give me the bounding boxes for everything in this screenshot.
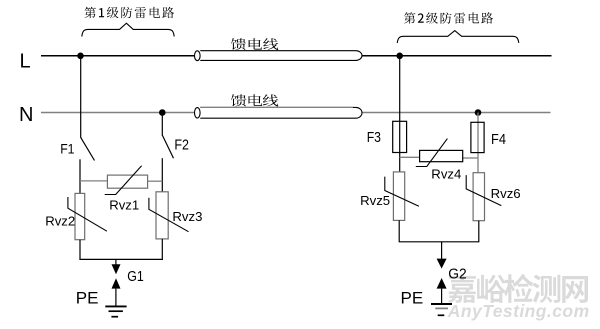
svg-text:L: L — [20, 50, 31, 72]
label 第1级防雷电路 — [85, 7, 175, 18]
gas discharge tube G1 — [112, 259, 121, 306]
label 馈电线 (L) — [231, 38, 278, 50]
svg-text:PE: PE — [401, 289, 424, 308]
svg-text:F2: F2 — [174, 138, 189, 154]
varistor Rvz2 body — [75, 193, 85, 239]
svg-text:F3: F3 — [367, 130, 381, 146]
label 第2级防雷电路 — [404, 12, 493, 23]
wire from L junction2 through F3 to Rvz5 — [399, 56, 401, 172]
svg-text:N: N — [19, 104, 33, 126]
wire Rvz2 to bottom — [79, 240, 81, 260]
cable 馈电线 N capsule — [195, 107, 362, 118]
wire N line right — [362, 112, 551, 114]
varistor Rvz6 body — [473, 173, 484, 221]
wire F2 to node B — [161, 158, 163, 192]
varistor Rvz3 body — [156, 192, 168, 239]
wire L line right — [362, 55, 552, 57]
gas discharge tube G2 — [437, 242, 447, 304]
fuse F2 blade — [163, 136, 174, 159]
label 馈电线 (N) — [231, 94, 278, 106]
varistor Rvz4 stroke symbol — [416, 139, 448, 167]
wire from N junction2 through F4 to Rvz6 — [477, 113, 479, 174]
ground PE stage1 — [105, 306, 126, 316]
svg-text:Rvz4: Rvz4 — [431, 167, 461, 182]
wire from L junction to F1 — [80, 56, 82, 138]
varistor Rvz6 stroke symbol — [466, 175, 501, 206]
watermark 嘉峪检测网 — [448, 274, 588, 303]
brace stage1 — [82, 23, 174, 36]
wire from N junction to F2 — [161, 113, 163, 136]
fuse F4 body — [471, 122, 484, 152]
node junction dot L-stage2 — [396, 53, 403, 60]
fuse F3 body — [393, 121, 407, 152]
svg-text:Rvz5: Rvz5 — [360, 193, 390, 208]
fuse F1 blade — [81, 137, 95, 160]
brace stage2 — [397, 31, 519, 43]
svg-text:G1: G1 — [127, 269, 144, 285]
wire L line left — [41, 55, 195, 57]
svg-text:Rvz6: Rvz6 — [491, 186, 521, 201]
cable 馈电线 L capsule — [195, 51, 363, 61]
varistor Rvz5 body — [393, 172, 404, 221]
varistor Rvz3 stroke symbol — [149, 198, 189, 232]
svg-text:F4: F4 — [491, 132, 506, 148]
varistor Rvz4 body — [420, 150, 463, 161]
varistor Rvz1 stroke symbol — [105, 166, 142, 195]
varistor Rvz5 stroke symbol — [385, 177, 419, 207]
node junction dot N-stage1 — [159, 109, 166, 116]
wire Rvz5 to bottom — [398, 220, 400, 241]
wire F3 branch to Rvz4 — [400, 156, 420, 158]
wire Rvz3 to bottom — [161, 239, 163, 260]
svg-text:Rvz3: Rvz3 — [172, 209, 202, 224]
varistor Rvz2 stroke symbol — [68, 197, 107, 231]
wire Rvz4 to F4 branch — [463, 157, 478, 159]
svg-text:Rvz1: Rvz1 — [109, 198, 139, 213]
wire Rvz1 to node B — [148, 180, 163, 182]
node junction dot L-stage1 — [77, 53, 84, 60]
svg-text:F1: F1 — [60, 142, 74, 157]
svg-text:G2: G2 — [448, 267, 466, 283]
wire F1 to node A — [79, 159, 81, 193]
svg-text:AnyTesting.com: AnyTesting.com — [447, 301, 590, 321]
node junction dot N-stage2 — [475, 109, 482, 116]
wire Rvz6 to bottom — [478, 221, 480, 242]
svg-text:PE: PE — [76, 289, 99, 308]
wire bottom bus stage1 — [79, 258, 163, 260]
wire bottom bus stage2 — [399, 241, 480, 243]
svg-text:Rvz2: Rvz2 — [45, 213, 75, 228]
wire N line left — [41, 112, 195, 114]
wire node A to Rvz1 — [80, 180, 107, 182]
ground PE stage2 — [431, 304, 452, 315]
varistor Rvz1 body — [107, 175, 147, 188]
